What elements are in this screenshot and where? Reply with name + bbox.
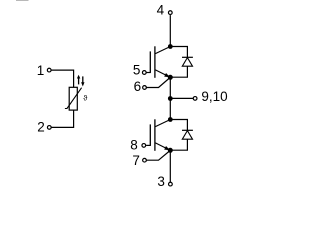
terminal circle 9,10	[193, 97, 197, 101]
T2 emitter diagonal	[155, 143, 169, 150]
T1 gate wire	[146, 72, 151, 74]
diode D2 cathode bar	[182, 129, 193, 131]
svg-text:ϑ: ϑ	[83, 94, 88, 103]
svg-text:1: 1	[37, 63, 45, 78]
svg-text:7: 7	[132, 153, 140, 168]
terminal circle 6 (aux emitter)	[143, 86, 147, 90]
svg-text:2: 2	[37, 120, 45, 135]
wire from thermistor bottom to terminal 2	[51, 110, 73, 127]
diode D2 branch bottom wire	[172, 139, 188, 150]
svg-text:8: 8	[130, 138, 138, 153]
terminal circle 4	[168, 11, 172, 15]
terminal circle 8 (gate)	[142, 144, 146, 148]
diode D1 cathode bar	[182, 56, 193, 58]
transistor T1 (IGBT) body bar	[154, 46, 156, 78]
svg-text:5: 5	[133, 63, 141, 78]
node: bottom collector junction	[168, 117, 173, 122]
transistor T1 gate bar	[149, 51, 151, 72]
node: phase junction	[168, 96, 173, 101]
diode D2 branch top wire	[170, 120, 187, 131]
T2 gate wire	[146, 144, 151, 146]
wire terminal 6 to emitter node	[146, 78, 170, 88]
wire to terminal 9,10	[170, 97, 193, 99]
wire terminal 7 to emitter node	[146, 151, 170, 161]
thermistor R(NTC) body	[69, 87, 77, 110]
svg-text:3: 3	[157, 174, 165, 189]
thermistor diagonal stroke	[65, 88, 82, 109]
diode D1 branch top wire	[170, 47, 187, 58]
T1 emitter arrowhead	[164, 73, 170, 77]
diode D2 triangle	[182, 131, 192, 140]
T2 emitter arrowhead	[164, 146, 170, 150]
terminal circle 7 (aux emitter)	[143, 158, 147, 162]
node: top collector junction	[168, 44, 173, 49]
wire bottom emitter node to terminal 3	[169, 150, 171, 182]
wire terminal4 to top collector node	[169, 15, 171, 46]
terminal circle 5 (gate)	[142, 71, 146, 75]
T1 emitter diagonal	[155, 70, 169, 77]
svg-text:6: 6	[134, 79, 142, 94]
temperature arrow down	[81, 76, 84, 86]
T2 collector diagonal	[155, 120, 170, 127]
temperature arrow up	[77, 75, 80, 85]
node: bottom emitter junction	[168, 148, 173, 153]
terminal circle 2	[47, 126, 51, 130]
crop artifact gray bar top	[16, 0, 29, 2]
svg-text:4: 4	[157, 3, 165, 18]
transistor T2 gate bar	[149, 124, 151, 145]
svg-text:9,10: 9,10	[201, 89, 227, 104]
wire top emitter node to bottom collector node (through node 9,10)	[169, 77, 171, 119]
transistor T2 (IGBT) body bar	[154, 119, 156, 151]
diode D1 triangle	[182, 58, 192, 67]
wire from terminal 1 to thermistor top	[51, 70, 73, 87]
diode D1 branch bottom wire	[172, 66, 188, 77]
node: top emitter junction	[168, 75, 173, 80]
terminal circle 1	[47, 68, 51, 72]
T1 collector diagonal	[155, 47, 170, 54]
terminal circle 3	[169, 182, 173, 186]
